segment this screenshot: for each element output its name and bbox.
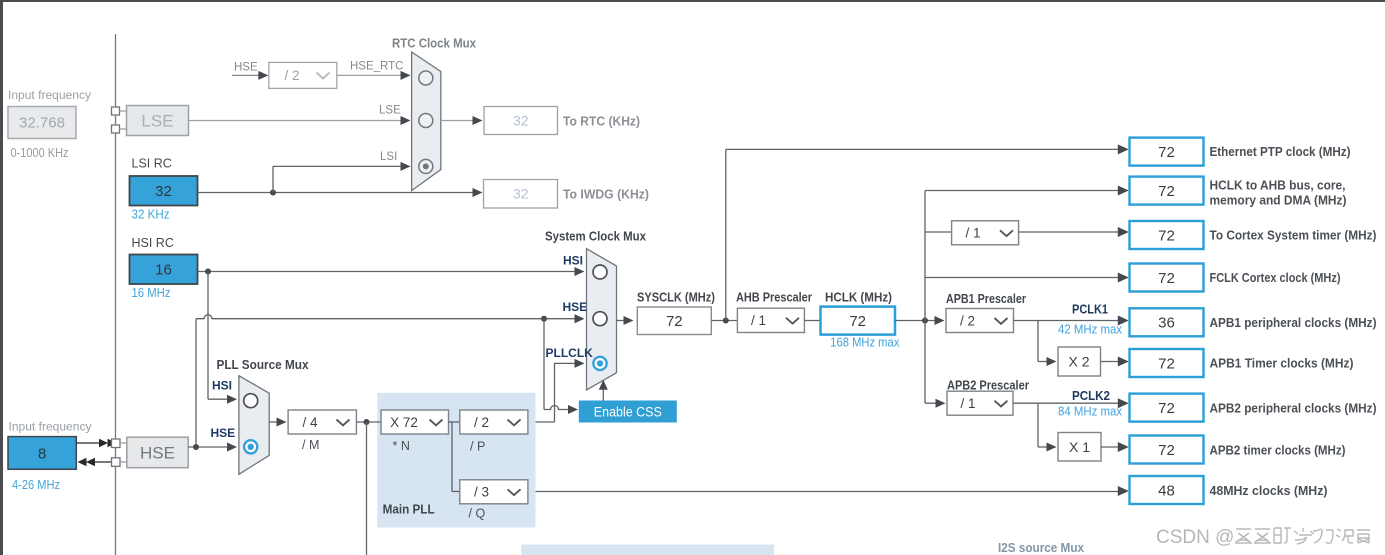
divider M dropdown — [288, 410, 356, 434]
svg-text:APB2 peripheral clocks (MHz): APB2 peripheral clocks (MHz) — [1210, 402, 1377, 416]
svg-text:Input frequency: Input frequency — [9, 420, 92, 434]
box APB1 Timer clocks value — [1130, 349, 1204, 377]
wire X2 branch — [1038, 321, 1053, 362]
svg-text:APB1 Prescaler: APB1 Prescaler — [946, 292, 1026, 306]
svg-text:PCLK2: PCLK2 — [1072, 389, 1110, 403]
pin square HSE bottom — [112, 458, 121, 467]
node HSI arrow into PLL mux — [227, 395, 237, 404]
node arrow into Ethernet PTP box — [1118, 144, 1129, 154]
svg-text:84 MHz max: 84 MHz max — [1058, 405, 1123, 419]
node PLLCLK arrow into system mux — [575, 359, 585, 368]
svg-text:72: 72 — [666, 313, 683, 330]
svg-text:Main PLL: Main PLL — [383, 503, 435, 517]
svg-text:Ethernet PTP clock (MHz): Ethernet PTP clock (MHz) — [1210, 145, 1351, 159]
node arrow into RTC divider — [258, 71, 268, 80]
svg-text:Input frequency: Input frequency — [8, 88, 91, 102]
svg-text:RTC Clock Mux: RTC Clock Mux — [392, 37, 476, 51]
wire LSI output to IWDG — [198, 192, 480, 194]
svg-text:LSI: LSI — [380, 151, 397, 163]
node arrow into APB1 timer box — [1118, 357, 1129, 367]
wire 48MHz row from PLL Q — [528, 491, 1125, 493]
svg-text:AHB Prescaler: AHB Prescaler — [736, 291, 812, 305]
svg-text:32.768: 32.768 — [19, 115, 65, 132]
wire APB2 feed riser — [925, 321, 942, 404]
wire LSI riser to RTC mux — [273, 166, 406, 192]
wire X1 output — [1101, 446, 1125, 448]
svg-text:To Cortex System timer (MHz): To Cortex System timer (MHz) — [1210, 229, 1377, 243]
svg-text:HCLK to AHB bus, core,: HCLK to AHB bus, core, — [1210, 179, 1346, 193]
divider APB1 prescaler dropdown — [946, 309, 1014, 333]
node HSE arrow into system mux — [575, 314, 585, 323]
divider P dropdown — [460, 410, 528, 434]
node arrow into APB1 peripheral box — [1118, 316, 1129, 326]
svg-text:/ 2: / 2 — [474, 415, 489, 430]
oscillator HSI RC 16 box — [130, 255, 198, 285]
svg-text:72: 72 — [849, 313, 866, 330]
svg-text:32: 32 — [513, 113, 529, 129]
svg-text:SYSCLK (MHz): SYSCLK (MHz) — [637, 291, 715, 305]
svg-text:168 MHz max: 168 MHz max — [830, 336, 900, 350]
svg-text:PCLK1: PCLK1 — [1072, 303, 1108, 317]
svg-text:HSE: HSE — [211, 426, 236, 440]
radio RTC mux HSE_RTC input — [419, 71, 433, 85]
mux system clock mux body — [587, 249, 617, 390]
svg-text:X 2: X 2 — [1068, 354, 1089, 370]
node junction dot HSI — [205, 269, 211, 275]
button Enable CSS — [579, 401, 677, 423]
svg-text:16: 16 — [155, 262, 172, 279]
wire Enable CSS arrow up into mux — [602, 388, 604, 401]
svg-text:memory and DMA (MHz): memory and DMA (MHz) — [1210, 194, 1347, 208]
mux PLL source mux body — [239, 376, 269, 475]
wire M divider output — [356, 421, 381, 423]
svg-text:/ 4: / 4 — [302, 415, 318, 430]
svg-text:72: 72 — [1158, 144, 1175, 161]
node arrow into SYSCLK box — [624, 316, 634, 325]
svg-text:/ 2: / 2 — [284, 68, 299, 83]
wire Q branch — [452, 422, 460, 492]
divider Cortex /1 prescaler dropdown — [952, 221, 1019, 245]
svg-text:0-1000 KHz: 0-1000 KHz — [11, 145, 69, 160]
svg-text:HSI: HSI — [212, 379, 232, 393]
node HSE arrow into PLL mux — [227, 443, 237, 452]
wire SYSCLK to AHB prescaler — [711, 320, 737, 322]
node arrow into APB1 prescaler — [935, 316, 945, 325]
node arrow into M divider — [277, 418, 287, 427]
node LSE arrow into RTC mux — [401, 116, 411, 125]
divider RTC /2 dropdown — [269, 62, 337, 88]
svg-text:I2S source Mux: I2S source Mux — [998, 541, 1084, 555]
radio system mux HSI input — [593, 265, 607, 279]
oscillator LSE — [127, 106, 189, 136]
divider APB2 prescaler dropdown — [947, 391, 1013, 415]
wire system mux output to SYSCLK — [617, 320, 630, 322]
svg-text:72: 72 — [1158, 442, 1175, 459]
radio system mux PLLCLK input selected — [593, 357, 606, 370]
svg-text:PLLCLK: PLLCLK — [546, 346, 594, 360]
watermark CSDN — [1156, 527, 1234, 548]
wire HSE stub into RTC divider — [232, 74, 264, 76]
node arrow up into system mux — [599, 380, 608, 390]
box APB2 peripheral clocks value — [1130, 394, 1204, 422]
node arrow into X1 — [1047, 443, 1057, 452]
wire X2 output — [1101, 361, 1126, 363]
svg-text:32: 32 — [155, 183, 172, 200]
node arrow into APB2 timer box — [1118, 442, 1129, 452]
svg-text:CSDN @: CSDN @ — [1156, 527, 1234, 548]
svg-text:72: 72 — [1158, 227, 1175, 244]
wire HCLK distribution riser — [924, 191, 926, 321]
svg-text:16 MHz: 16 MHz — [132, 285, 171, 300]
node junction dot SYSCLK — [723, 318, 729, 324]
wire AHB to HCLK — [804, 320, 820, 322]
box To RTC value — [484, 107, 558, 135]
svg-text:/ 1: / 1 — [965, 226, 980, 241]
wire left pin rail — [115, 34, 117, 555]
svg-text:/ Q: / Q — [469, 507, 486, 521]
svg-text:/ 3: / 3 — [474, 485, 489, 500]
svg-text:* N: * N — [393, 439, 410, 453]
node arrow into APB2 prescaler — [936, 399, 946, 408]
svg-text:42 MHz max: 42 MHz max — [1058, 323, 1123, 337]
svg-text:32: 32 — [513, 186, 529, 202]
node arrow into HCLK AHB box — [1118, 186, 1129, 196]
svg-text:HSE: HSE — [563, 300, 588, 314]
wire HCLK to APB1 prescaler — [895, 320, 941, 322]
svg-text:48MHz clocks (MHz): 48MHz clocks (MHz) — [1210, 484, 1328, 498]
wire PCLK1 row — [1014, 320, 1126, 322]
svg-text:LSE: LSE — [379, 105, 401, 117]
box HCLK value — [821, 307, 896, 335]
node arrow into To RTC box — [473, 116, 483, 125]
box HSE input frequency 8 — [8, 437, 76, 470]
node junction dot HSE css branch — [541, 316, 547, 322]
node LSI arrow into RTC mux — [401, 162, 411, 171]
wire HSE output to PLL mux — [188, 446, 233, 448]
node junction dot HCLK — [922, 318, 928, 324]
svg-text:/ 1: / 1 — [960, 396, 975, 411]
wire PLLCLK riser from PLL P divider — [528, 363, 581, 422]
divider Q dropdown — [460, 480, 528, 504]
label HCLK to AHB bus core memory and DMA (MHz) — [1210, 179, 1347, 208]
wire LSE to RTC mux — [189, 120, 407, 122]
wire FCLK row — [925, 277, 1125, 279]
wire HSE_RTC to RTC mux — [337, 74, 406, 76]
svg-text:X 1: X 1 — [1069, 439, 1090, 455]
wire LSE pin stubs — [120, 111, 128, 129]
node junction dot M output — [364, 419, 370, 425]
svg-text:APB2 timer clocks (MHz): APB2 timer clocks (MHz) — [1210, 444, 1346, 458]
svg-text:APB1 Timer clocks (MHz): APB1 Timer clocks (MHz) — [1210, 357, 1354, 371]
node arrow into APB2 peripheral box — [1118, 398, 1129, 408]
svg-text:To RTC (KHz): To RTC (KHz) — [563, 115, 640, 129]
wire ethernet PTP branch riser — [726, 149, 1125, 320]
svg-text:/ 2: / 2 — [960, 313, 975, 328]
panel Main PLL background — [377, 393, 535, 528]
multiplier X2 box — [1058, 347, 1101, 376]
box 48MHz clocks value — [1130, 476, 1204, 504]
box FCLK Cortex clock value — [1130, 264, 1204, 292]
svg-text:HSE: HSE — [140, 444, 175, 463]
wire enable css feed with hop — [544, 319, 574, 410]
svg-text:LSI RC: LSI RC — [132, 157, 172, 171]
svg-text:FCLK Cortex clock (MHz): FCLK Cortex clock (MHz) — [1210, 271, 1341, 285]
svg-text:72: 72 — [1158, 400, 1175, 417]
LSE pin square top — [112, 107, 120, 115]
svg-text:48: 48 — [1158, 482, 1175, 499]
radio system mux HSE input — [593, 312, 607, 326]
node junction dot HSE output — [193, 444, 199, 450]
pin square HSE top — [112, 439, 121, 448]
mux RTC clock mux body — [412, 52, 441, 191]
wire I2S feed down from M output — [366, 422, 368, 555]
multiplier N dropdown — [381, 410, 448, 434]
wire HSI output to system mux — [198, 271, 581, 273]
box APB2 timer clocks value — [1130, 436, 1204, 464]
svg-text:HSE: HSE — [234, 62, 258, 74]
divider AHB prescaler dropdown — [737, 308, 804, 332]
wire HSE osc-in with double arrows — [76, 439, 116, 448]
svg-text:32 KHz: 32 KHz — [132, 207, 170, 222]
wire pin to HSE osc bottom — [120, 461, 127, 463]
watermark CJK glyph strokes — [1235, 528, 1370, 544]
box APB1 peripheral clocks value — [1130, 308, 1204, 336]
svg-text:HCLK (MHz): HCLK (MHz) — [825, 291, 892, 305]
wire HCLK to AHB bus row — [925, 190, 1125, 192]
svg-text:72: 72 — [1158, 270, 1175, 287]
node arrow into X2 — [1047, 357, 1057, 366]
svg-text:/ P: / P — [470, 440, 485, 454]
svg-text:LSE: LSE — [141, 112, 173, 131]
wire cortex prescaler row — [925, 231, 952, 233]
box SYSCLK value — [637, 307, 711, 335]
LSE input frequency box 32.768 — [8, 107, 76, 139]
radio PLL mux HSE input selected — [244, 440, 257, 453]
node arrow into 48MHz box — [1118, 486, 1129, 496]
svg-text:72: 72 — [1158, 183, 1175, 200]
box To Cortex System timer value — [1130, 221, 1204, 249]
svg-text:4-26 MHz: 4-26 MHz — [12, 477, 60, 492]
svg-text:HSI RC: HSI RC — [132, 236, 174, 250]
panel I2S mux background bottom — [521, 545, 774, 555]
box HCLK to AHB value — [1130, 177, 1204, 205]
node arrow into To IWDG box — [473, 188, 483, 197]
box Ethernet PTP clock value — [1130, 138, 1204, 166]
svg-text:System Clock Mux: System Clock Mux — [545, 230, 646, 244]
multiplier X1 box — [1058, 433, 1101, 462]
wire HSI riser to PLL mux — [208, 272, 234, 400]
wire PCLK2 row — [1013, 402, 1125, 404]
node arrow into Enable CSS — [568, 405, 578, 414]
svg-text:To IWDG (KHz): To IWDG (KHz) — [563, 188, 649, 202]
svg-text:36: 36 — [1158, 315, 1175, 332]
svg-text:72: 72 — [1158, 355, 1175, 372]
svg-text:HSI: HSI — [563, 254, 583, 268]
svg-text:X 72: X 72 — [390, 415, 418, 430]
svg-text:APB1 peripheral clocks (MHz): APB1 peripheral clocks (MHz) — [1210, 316, 1377, 330]
node HSE_RTC arrow into RTC mux — [401, 71, 411, 80]
node HSI arrow into system mux — [575, 267, 585, 276]
node arrow into FCLK box — [1118, 273, 1129, 283]
svg-text:/ 1: / 1 — [751, 313, 766, 328]
wire PLL mux output to M divider — [269, 421, 282, 423]
wire HSE osc-out with double arrows — [78, 458, 112, 467]
node arrow into Cortex timer box — [1118, 227, 1129, 237]
svg-text:/ M: / M — [302, 438, 319, 452]
oscillator HSE — [127, 437, 188, 468]
wire cortex prescaler output — [1019, 231, 1125, 233]
box To IWDG value — [484, 180, 558, 209]
svg-text:APB2 Prescaler: APB2 Prescaler — [947, 379, 1029, 393]
radio RTC mux LSI input selected — [419, 159, 433, 173]
radio RTC mux LSE input — [419, 114, 433, 128]
wire X1 branch — [1038, 403, 1053, 447]
svg-text:8: 8 — [38, 446, 46, 463]
wire RTC mux output — [441, 120, 478, 122]
svg-text:HSE_RTC: HSE_RTC — [350, 61, 403, 73]
node junction dot LSI — [270, 190, 276, 196]
svg-text:Enable CSS: Enable CSS — [594, 405, 662, 420]
LSE pin square bottom — [112, 125, 120, 133]
oscillator LSI RC 32 box — [130, 176, 198, 206]
wire HSE riser from HSE osc to system mux with hop over HSI riser — [196, 315, 581, 447]
wire pin to HSE osc — [120, 442, 127, 444]
svg-text:PLL Source Mux: PLL Source Mux — [217, 358, 309, 372]
wire N to P divider — [449, 421, 460, 423]
radio PLL mux HSI input — [244, 394, 258, 408]
